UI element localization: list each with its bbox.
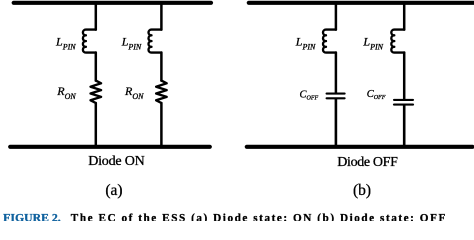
svg-text:(b): (b) xyxy=(353,182,371,199)
inductor L_PIN B xyxy=(149,30,162,53)
wire column D middle xyxy=(403,53,406,99)
wire bottom rail left panel xyxy=(10,145,210,149)
svg-text:The EC of the ESS (a) Diode st: The EC of the ESS (a) Diode state: ON (b… xyxy=(71,212,446,221)
inductor L_PIN C xyxy=(323,30,336,53)
svg-text:COFF: COFF xyxy=(367,89,386,101)
wire column D top xyxy=(403,3,406,30)
wire column B middle xyxy=(160,53,163,81)
svg-text:(a): (a) xyxy=(105,182,122,199)
wire column B top xyxy=(160,3,163,30)
svg-text:LPIN: LPIN xyxy=(121,35,142,52)
wire column A bottom xyxy=(95,103,98,147)
wire column A middle xyxy=(95,53,98,81)
svg-text:LPIN: LPIN xyxy=(55,35,76,52)
wire column A top xyxy=(95,3,98,30)
capacitor C_OFF D xyxy=(394,100,413,105)
wire column C middle xyxy=(335,53,338,93)
inductor L_PIN A xyxy=(83,30,96,53)
svg-text:Diode ON: Diode ON xyxy=(88,154,144,169)
wire column C bottom xyxy=(335,99,338,147)
wire column B bottom xyxy=(160,103,163,147)
wire top rail left panel xyxy=(14,1,211,5)
svg-text:RON: RON xyxy=(124,84,144,101)
wire bottom rail right panel xyxy=(247,145,473,149)
capacitor C_OFF C xyxy=(327,94,345,99)
inductor L_PIN D xyxy=(391,30,404,53)
svg-text:Diode OFF: Diode OFF xyxy=(337,155,398,170)
wire column D bottom xyxy=(403,106,406,147)
svg-text:COFF: COFF xyxy=(300,89,319,101)
svg-text:FIGURE 2.: FIGURE 2. xyxy=(3,212,61,221)
wire top rail right panel xyxy=(249,1,474,5)
svg-text:RON: RON xyxy=(56,84,76,101)
svg-text:LPIN: LPIN xyxy=(362,35,383,52)
wire column C top xyxy=(335,3,338,30)
resistor R_ON B xyxy=(156,81,167,103)
svg-text:LPIN: LPIN xyxy=(295,35,316,52)
resistor R_ON A xyxy=(91,81,102,103)
